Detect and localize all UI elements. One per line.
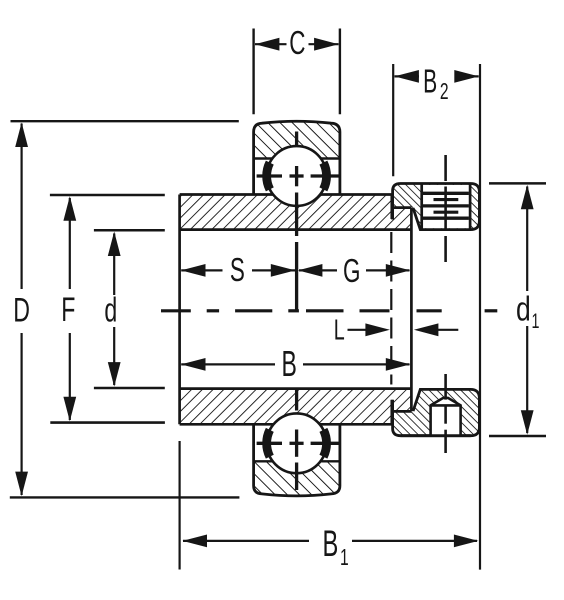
crosshair top ball — [257, 174, 282, 177]
dimension F extension lines — [50, 194, 165, 197]
dashed extension line at inner ring step — [390, 232, 392, 385]
svg-text:B: B — [423, 63, 437, 100]
svg-text:B: B — [282, 345, 297, 384]
vertical centerline through balls — [295, 132, 298, 147]
dimension D — [21, 124, 23, 290]
dimension S — [181, 269, 222, 271]
svg-text:d: d — [104, 292, 117, 329]
set screw centerline — [444, 155, 447, 181]
dimension G — [299, 269, 337, 271]
crosshair bottom ball — [257, 442, 282, 445]
dimension C extension lines — [252, 29, 254, 115]
svg-text:d: d — [516, 290, 531, 328]
svg-text:F: F — [61, 292, 75, 329]
dimension B1 — [183, 540, 309, 542]
dimension D extension lines — [11, 120, 239, 122]
svg-text:L: L — [334, 315, 345, 347]
svg-text:C: C — [289, 24, 305, 61]
ball top — [267, 146, 327, 206]
svg-text:S: S — [230, 251, 245, 288]
locking collar bottom section — [393, 389, 480, 435]
race wedges top ball — [267, 163, 270, 190]
svg-text:2: 2 — [440, 79, 449, 105]
svg-text:B: B — [323, 523, 339, 565]
set screw with cone point — [431, 398, 461, 436]
shaft axis centerline — [161, 309, 191, 312]
ball bottom — [267, 413, 327, 473]
set screw threaded hole — [420, 184, 423, 229]
dimension B2 extension lines — [392, 64, 394, 176]
dimension C — [255, 43, 287, 45]
dimension F — [69, 198, 71, 289]
dimension B2 — [395, 75, 420, 77]
dimension L — [348, 329, 368, 331]
outer ring top section — [252, 120, 342, 159]
dimension d extension lines — [94, 229, 165, 232]
dimension d — [113, 234, 115, 296]
dimension B — [181, 363, 275, 365]
svg-text:G: G — [343, 252, 360, 289]
dimension d1 — [526, 187, 528, 292]
inner ring sleeve hatched section — [180, 195, 412, 425]
locking collar top section — [393, 184, 480, 230]
outer ring bottom section — [252, 461, 342, 499]
svg-text:1: 1 — [340, 545, 349, 571]
inner ring outline — [180, 193, 392, 196]
svg-text:D: D — [13, 292, 30, 329]
svg-text:1: 1 — [532, 309, 540, 332]
race wedges bottom ball — [267, 430, 270, 457]
dimension d1 extension ticks — [489, 182, 546, 185]
dimension B1 extension line left — [179, 441, 181, 570]
